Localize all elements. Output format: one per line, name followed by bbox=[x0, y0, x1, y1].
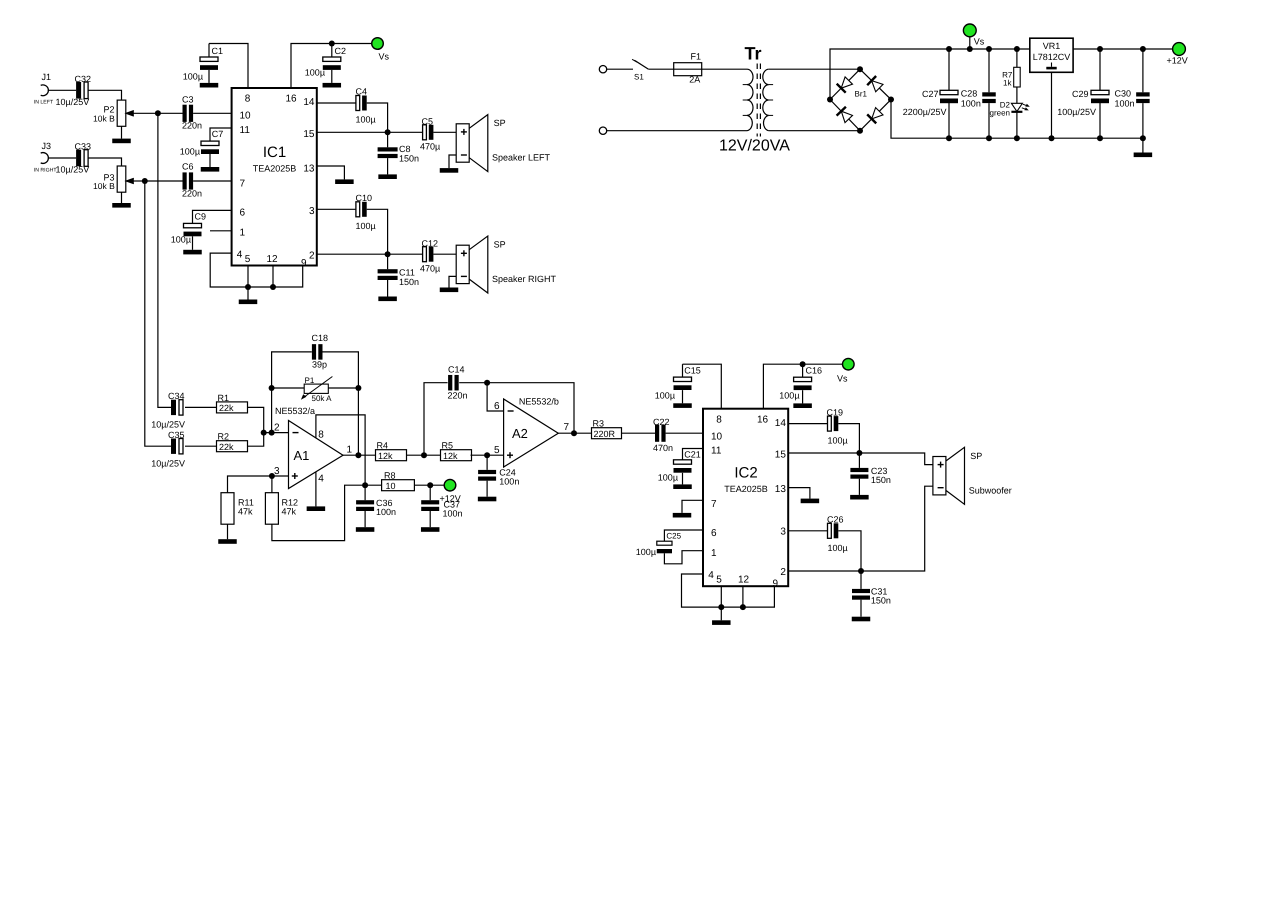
capacitor C32 10u/25V bbox=[76, 82, 81, 99]
svg-text:C3: C3 bbox=[182, 94, 194, 104]
svg-text:100µ/25V: 100µ/25V bbox=[1057, 107, 1096, 117]
wire pin7 ground bbox=[682, 500, 703, 513]
wire bbox=[1016, 112, 1018, 138]
node bbox=[245, 284, 251, 290]
node inverting input bbox=[261, 430, 267, 436]
capacitor C28 100n bbox=[988, 49, 990, 92]
svg-text:4: 4 bbox=[708, 570, 714, 581]
svg-text:47k: 47k bbox=[282, 506, 297, 516]
capacitor C12 470u bbox=[423, 247, 427, 262]
svg-text:IC1: IC1 bbox=[263, 144, 286, 161]
wire bbox=[248, 433, 264, 447]
ground bbox=[440, 168, 459, 173]
ground bbox=[218, 539, 237, 544]
wire pin15 to speaker bbox=[788, 453, 933, 465]
capacitor C35 10u/25V bbox=[171, 439, 176, 454]
svg-text:5: 5 bbox=[716, 575, 722, 586]
svg-text:VR1: VR1 bbox=[1043, 41, 1061, 51]
svg-text:Speaker LEFT: Speaker LEFT bbox=[492, 153, 551, 163]
wire transformer primary bottom bbox=[607, 130, 747, 132]
capacitor C26 100u bbox=[828, 523, 832, 538]
capacitor C24 100n bbox=[486, 455, 488, 470]
svg-text:C6: C6 bbox=[182, 162, 194, 172]
wire pin3 to C26 bbox=[788, 530, 827, 532]
wire C14 feedback bbox=[424, 383, 448, 456]
transformer secondary bbox=[763, 69, 769, 131]
node bridge top bbox=[857, 66, 863, 72]
svg-text:100µ: 100µ bbox=[828, 543, 848, 553]
ground bbox=[673, 403, 692, 408]
svg-text:12k: 12k bbox=[443, 451, 458, 461]
wire pin4 ground bbox=[315, 472, 317, 507]
svg-text:6: 6 bbox=[494, 401, 500, 412]
svg-text:100n: 100n bbox=[961, 99, 981, 109]
svg-text:R8: R8 bbox=[384, 471, 396, 481]
node P3 wiper junction bbox=[142, 178, 148, 184]
svg-text:NE5532/b: NE5532/b bbox=[519, 397, 559, 407]
svg-text:C32: C32 bbox=[75, 74, 92, 84]
wire bbox=[702, 68, 747, 70]
svg-text:11: 11 bbox=[711, 446, 722, 457]
svg-text:+12V: +12V bbox=[1167, 56, 1188, 66]
svg-text:R2: R2 bbox=[218, 432, 230, 442]
svg-text:C26: C26 bbox=[827, 514, 844, 524]
svg-text:14: 14 bbox=[303, 97, 315, 108]
svg-text:S1: S1 bbox=[634, 73, 644, 82]
svg-text:R1: R1 bbox=[218, 393, 230, 403]
resistor R1 22k bbox=[217, 402, 248, 413]
svg-text:10: 10 bbox=[711, 431, 723, 442]
svg-text:220n: 220n bbox=[182, 188, 202, 198]
node bbox=[269, 473, 275, 479]
wire pin2 to C12 bbox=[317, 253, 423, 255]
svg-text:47k: 47k bbox=[238, 506, 253, 516]
capacitor C11 150n bbox=[387, 254, 389, 269]
resistor R3 220R bbox=[592, 428, 622, 439]
resistor R4 12k bbox=[376, 450, 407, 461]
wire secondary bottom to bridge bbox=[769, 130, 860, 132]
potentiometer P3 10k B bbox=[117, 166, 126, 192]
svg-text:C2: C2 bbox=[335, 46, 347, 56]
wire bridge - to ground rail bbox=[891, 100, 1143, 139]
wire bbox=[272, 387, 305, 389]
svg-text:C5: C5 bbox=[422, 117, 434, 127]
svg-text:C30: C30 bbox=[1115, 89, 1132, 99]
wire pin14 to C4 bbox=[317, 102, 356, 104]
resistor R5 12k bbox=[441, 450, 472, 461]
wire regulator output rail bbox=[1073, 48, 1173, 50]
capacitor C14 220n bbox=[448, 375, 452, 391]
wire bbox=[121, 126, 123, 138]
svg-text:J3: J3 bbox=[42, 141, 52, 151]
wire bbox=[648, 68, 673, 70]
svg-text:7: 7 bbox=[564, 422, 570, 433]
svg-text:+12V: +12V bbox=[440, 493, 461, 503]
wire pin16 to Vs bbox=[291, 44, 372, 89]
svg-text:100µ: 100µ bbox=[828, 436, 848, 446]
svg-text:100n: 100n bbox=[443, 509, 463, 519]
svg-text:A2: A2 bbox=[512, 426, 528, 441]
ground bbox=[673, 513, 692, 518]
wire pin5 bbox=[720, 586, 722, 607]
svg-text:SP: SP bbox=[970, 451, 982, 461]
potentiometer P2 10k B bbox=[117, 100, 126, 126]
wire bbox=[192, 236, 194, 250]
svg-text:10µ/25V: 10µ/25V bbox=[151, 420, 185, 430]
speaker SP Subwoofer bbox=[933, 457, 946, 495]
wire bbox=[193, 180, 231, 182]
svg-text:100µ: 100µ bbox=[356, 221, 376, 231]
terminal Vs sub bbox=[843, 358, 855, 370]
trimmer P1 50k A bbox=[304, 384, 328, 393]
capacitor C30 100n bbox=[1142, 49, 1144, 92]
LED D2 green bbox=[1011, 103, 1022, 111]
ground bbox=[112, 139, 131, 144]
fuse F1 2A bbox=[674, 63, 702, 76]
capacitor C2 100u bbox=[331, 44, 333, 58]
svg-text:220R: 220R bbox=[594, 429, 616, 439]
svg-text:10µ/25V: 10µ/25V bbox=[56, 165, 90, 175]
svg-text:150n: 150n bbox=[399, 277, 419, 287]
ground bbox=[712, 620, 731, 625]
svg-text:4: 4 bbox=[318, 473, 324, 484]
svg-text:3: 3 bbox=[274, 466, 280, 477]
ground bbox=[1134, 153, 1153, 158]
svg-text:1k: 1k bbox=[1003, 78, 1012, 87]
wire A1 output bbox=[343, 454, 376, 456]
svg-text:C29: C29 bbox=[1072, 89, 1089, 99]
wire bbox=[1142, 138, 1144, 152]
capacitor C4 100u bbox=[356, 96, 360, 111]
ground bbox=[801, 499, 820, 504]
node bbox=[946, 46, 952, 52]
node C2 junction bbox=[329, 41, 335, 47]
svg-text:13: 13 bbox=[775, 484, 787, 495]
svg-text:150n: 150n bbox=[871, 475, 891, 485]
svg-text:P1: P1 bbox=[305, 376, 315, 385]
ground bbox=[850, 495, 869, 500]
capacitor C7 100u bbox=[210, 128, 232, 141]
capacitor C15 100u bbox=[682, 364, 684, 377]
node bbox=[427, 482, 433, 488]
capacitor C37 100n bbox=[429, 485, 431, 500]
svg-text:IN LEFT: IN LEFT bbox=[34, 100, 54, 106]
wire bbox=[838, 531, 861, 571]
node feedback tap bbox=[269, 430, 275, 436]
svg-text:13: 13 bbox=[303, 164, 315, 175]
svg-text:220n: 220n bbox=[182, 121, 202, 131]
svg-text:1: 1 bbox=[711, 548, 717, 559]
resistor R8 10 bbox=[365, 484, 382, 486]
svg-text:Tr: Tr bbox=[745, 44, 762, 64]
svg-text:22k: 22k bbox=[219, 442, 234, 452]
wire pin16 to Vs bbox=[763, 364, 842, 409]
op-amp A1 NE5532/a bbox=[289, 421, 344, 489]
svg-text:12: 12 bbox=[267, 254, 279, 265]
wire bbox=[88, 158, 122, 166]
svg-text:C21: C21 bbox=[684, 450, 701, 460]
node bbox=[740, 604, 746, 610]
terminal Vs bbox=[372, 38, 384, 50]
svg-text:3: 3 bbox=[309, 206, 315, 217]
terminal +12V filter bbox=[444, 479, 456, 491]
node bbox=[355, 385, 361, 391]
node C16 junction bbox=[800, 361, 806, 367]
transformer Tr 12V/20VA primary bbox=[747, 69, 753, 131]
IC U IC1 TEA2025B bbox=[232, 88, 317, 266]
node bbox=[1140, 135, 1146, 141]
bridge rectifier Br1 bbox=[830, 69, 860, 99]
svg-text:C9: C9 bbox=[195, 211, 207, 221]
svg-text:1: 1 bbox=[240, 228, 246, 239]
svg-text:39p: 39p bbox=[312, 360, 327, 370]
node bbox=[1097, 46, 1103, 52]
wire bbox=[48, 89, 76, 91]
wire bbox=[209, 154, 211, 167]
svg-text:8: 8 bbox=[318, 429, 324, 440]
capacitor C22 470n bbox=[655, 425, 659, 442]
svg-text:22k: 22k bbox=[219, 403, 234, 413]
capacitor C9 100u bbox=[193, 210, 232, 223]
ground bbox=[440, 288, 459, 293]
wire bbox=[264, 432, 289, 434]
node P2 wiper junction bbox=[155, 110, 161, 116]
svg-text:12V/20VA: 12V/20VA bbox=[719, 138, 790, 155]
svg-text:L7812CV: L7812CV bbox=[1033, 52, 1071, 62]
svg-text:2A: 2A bbox=[689, 75, 700, 85]
capacitor C36 100n bbox=[364, 485, 366, 500]
wire bbox=[145, 180, 183, 182]
svg-text:6: 6 bbox=[240, 208, 246, 219]
node bbox=[571, 430, 577, 436]
wire bbox=[682, 390, 684, 403]
resistor R11 47k bbox=[221, 493, 234, 525]
svg-text:100n: 100n bbox=[376, 507, 396, 517]
node bridge left bbox=[827, 97, 833, 103]
wire bbox=[247, 287, 249, 300]
resistor R7 1k bbox=[1016, 49, 1018, 67]
wire pin15 to C5 bbox=[317, 131, 423, 133]
capacitor C19 100u bbox=[828, 416, 832, 431]
svg-text:A1: A1 bbox=[294, 448, 310, 463]
speaker SP Speaker LEFT bbox=[456, 124, 469, 162]
node bbox=[385, 129, 391, 135]
capacitor C5 470u bbox=[423, 125, 427, 140]
wire bbox=[682, 473, 684, 485]
ground bbox=[200, 83, 219, 88]
wire bbox=[449, 276, 456, 287]
node bbox=[967, 46, 973, 52]
switch S1 bbox=[607, 68, 633, 70]
jack J3 (IN RIGHT) bbox=[41, 153, 49, 164]
wire pin3 to C10 bbox=[317, 208, 356, 210]
svg-text:J1: J1 bbox=[42, 72, 52, 82]
op-amp A2 NE5532/b bbox=[504, 399, 559, 467]
svg-text:100µ: 100µ bbox=[356, 115, 376, 125]
ground bbox=[673, 484, 692, 489]
svg-text:C25: C25 bbox=[666, 531, 681, 540]
wire bbox=[433, 131, 456, 133]
wire secondary top to bridge bbox=[769, 68, 860, 70]
wire bbox=[1051, 72, 1053, 138]
wire A2 output bbox=[558, 432, 591, 434]
svg-text:C10: C10 bbox=[356, 193, 373, 203]
capacitor C29 100u/25V bbox=[1099, 49, 1101, 90]
wire bbox=[331, 70, 333, 83]
svg-text:1: 1 bbox=[346, 444, 352, 455]
svg-text:C19: C19 bbox=[827, 407, 844, 417]
svg-text:C27: C27 bbox=[922, 89, 939, 99]
svg-text:9: 9 bbox=[773, 579, 779, 590]
svg-text:C35: C35 bbox=[168, 430, 185, 440]
terminal +12V bbox=[1173, 43, 1186, 56]
node bbox=[718, 604, 724, 610]
svg-text:10: 10 bbox=[386, 481, 396, 491]
svg-text:12: 12 bbox=[738, 575, 750, 586]
node bbox=[1049, 135, 1055, 141]
speaker SP Speaker RIGHT bbox=[456, 245, 469, 283]
wire pin8 to C1 bbox=[209, 44, 248, 89]
svg-text:R3: R3 bbox=[593, 418, 605, 428]
node output bbox=[355, 452, 361, 458]
svg-text:C15: C15 bbox=[684, 366, 701, 376]
wire pin4/5/12/9 bottom bus bbox=[682, 574, 775, 607]
node bbox=[421, 452, 427, 458]
ground bbox=[239, 300, 258, 305]
svg-text:IN RIGHT: IN RIGHT bbox=[34, 167, 58, 173]
node bbox=[385, 251, 391, 257]
node bbox=[1014, 46, 1020, 52]
svg-text:100µ: 100µ bbox=[171, 235, 191, 245]
node bbox=[484, 380, 490, 386]
wire bbox=[208, 70, 210, 83]
svg-text:C1: C1 bbox=[212, 46, 224, 56]
capacitor C23 150n bbox=[858, 453, 860, 468]
svg-text:8: 8 bbox=[245, 94, 251, 105]
wire pin12 bbox=[742, 586, 744, 607]
node bridge bottom bbox=[857, 128, 863, 134]
wire bbox=[248, 407, 264, 432]
wire bbox=[666, 432, 703, 434]
wire bridge + to rail bbox=[830, 49, 1030, 100]
svg-text:470n: 470n bbox=[653, 443, 673, 453]
node bbox=[269, 385, 275, 391]
svg-text:100µ: 100µ bbox=[658, 473, 678, 483]
wire bbox=[367, 103, 388, 132]
resistor R12 47k bbox=[271, 476, 273, 493]
svg-text:2: 2 bbox=[780, 567, 786, 578]
svg-text:C16: C16 bbox=[806, 366, 823, 376]
node bbox=[986, 135, 992, 141]
wire pin12 bbox=[272, 266, 274, 287]
capacitor C27 2200u/25V bbox=[948, 49, 950, 90]
svg-text:C7: C7 bbox=[212, 129, 224, 139]
svg-text:16: 16 bbox=[757, 414, 769, 425]
svg-text:SP: SP bbox=[494, 240, 506, 250]
svg-text:Br1: Br1 bbox=[855, 90, 868, 99]
svg-text:100µ: 100µ bbox=[180, 146, 200, 156]
svg-text:9: 9 bbox=[301, 258, 307, 269]
node bbox=[1140, 46, 1146, 52]
wire bbox=[407, 454, 441, 456]
wire pin13 ground bbox=[788, 488, 810, 499]
svg-text:C33: C33 bbox=[75, 142, 92, 152]
wire pin5 bbox=[247, 266, 249, 287]
svg-text:10: 10 bbox=[240, 111, 252, 122]
wire bbox=[158, 112, 183, 114]
svg-text:15: 15 bbox=[775, 450, 787, 461]
svg-text:C12: C12 bbox=[422, 238, 439, 248]
ground bbox=[201, 167, 220, 172]
svg-text:12k: 12k bbox=[378, 451, 393, 461]
ground bbox=[356, 527, 375, 532]
wire feedback left riser bbox=[272, 352, 312, 433]
wire bbox=[622, 432, 656, 434]
capacitor C33 10u/25V bbox=[76, 150, 81, 167]
node bridge right bbox=[888, 97, 894, 103]
node bbox=[858, 568, 864, 574]
svg-text:150n: 150n bbox=[399, 154, 419, 164]
svg-text:C14: C14 bbox=[448, 364, 465, 374]
svg-text:100µ: 100µ bbox=[183, 72, 203, 82]
svg-text:7: 7 bbox=[240, 178, 246, 189]
svg-text:Speaker RIGHT: Speaker RIGHT bbox=[492, 274, 557, 284]
svg-text:470µ: 470µ bbox=[420, 264, 440, 274]
svg-text:10µ/25V: 10µ/25V bbox=[56, 97, 90, 107]
wire bbox=[185, 406, 217, 408]
svg-text:2: 2 bbox=[309, 250, 315, 261]
ground bbox=[478, 497, 497, 502]
wire R12 to supply node bbox=[272, 485, 365, 540]
svg-text:C34: C34 bbox=[168, 391, 185, 401]
svg-text:8: 8 bbox=[716, 414, 722, 425]
svg-text:Subwoofer: Subwoofer bbox=[969, 485, 1012, 495]
svg-text:NE5532/a: NE5532/a bbox=[275, 406, 315, 416]
svg-text:100µ: 100µ bbox=[305, 68, 325, 78]
svg-text:C18: C18 bbox=[312, 333, 329, 343]
svg-text:4: 4 bbox=[237, 250, 243, 261]
capacitor C25 100u bbox=[664, 530, 703, 541]
svg-text:2200µ/25V: 2200µ/25V bbox=[903, 107, 947, 117]
capacitor C31 150n bbox=[860, 571, 862, 589]
wire bbox=[227, 524, 229, 539]
ground bbox=[323, 83, 342, 88]
node bbox=[1014, 135, 1020, 141]
jack J1 (IN LEFT) bbox=[41, 85, 49, 96]
svg-text:7: 7 bbox=[711, 499, 717, 510]
wire noninverting input bbox=[228, 476, 289, 493]
svg-text:C8: C8 bbox=[399, 144, 411, 154]
svg-text:16: 16 bbox=[286, 94, 298, 105]
capacitor C1 100u bbox=[208, 44, 210, 58]
node bbox=[986, 46, 992, 52]
svg-text:R5: R5 bbox=[442, 441, 454, 451]
wire bbox=[802, 390, 804, 403]
node bbox=[946, 135, 952, 141]
node bbox=[270, 284, 276, 290]
wire bbox=[193, 112, 231, 114]
wire bbox=[185, 445, 217, 447]
wire pin1 stub bbox=[210, 230, 232, 232]
svg-text:100n: 100n bbox=[1115, 99, 1135, 109]
capacitor C21 100u bbox=[683, 449, 704, 460]
wire bbox=[328, 387, 358, 389]
svg-text:100µ: 100µ bbox=[779, 391, 799, 401]
ground bbox=[112, 203, 131, 208]
wire to pin6 bbox=[487, 383, 504, 411]
node supply junction bbox=[362, 482, 368, 488]
svg-text:100n: 100n bbox=[499, 477, 519, 487]
